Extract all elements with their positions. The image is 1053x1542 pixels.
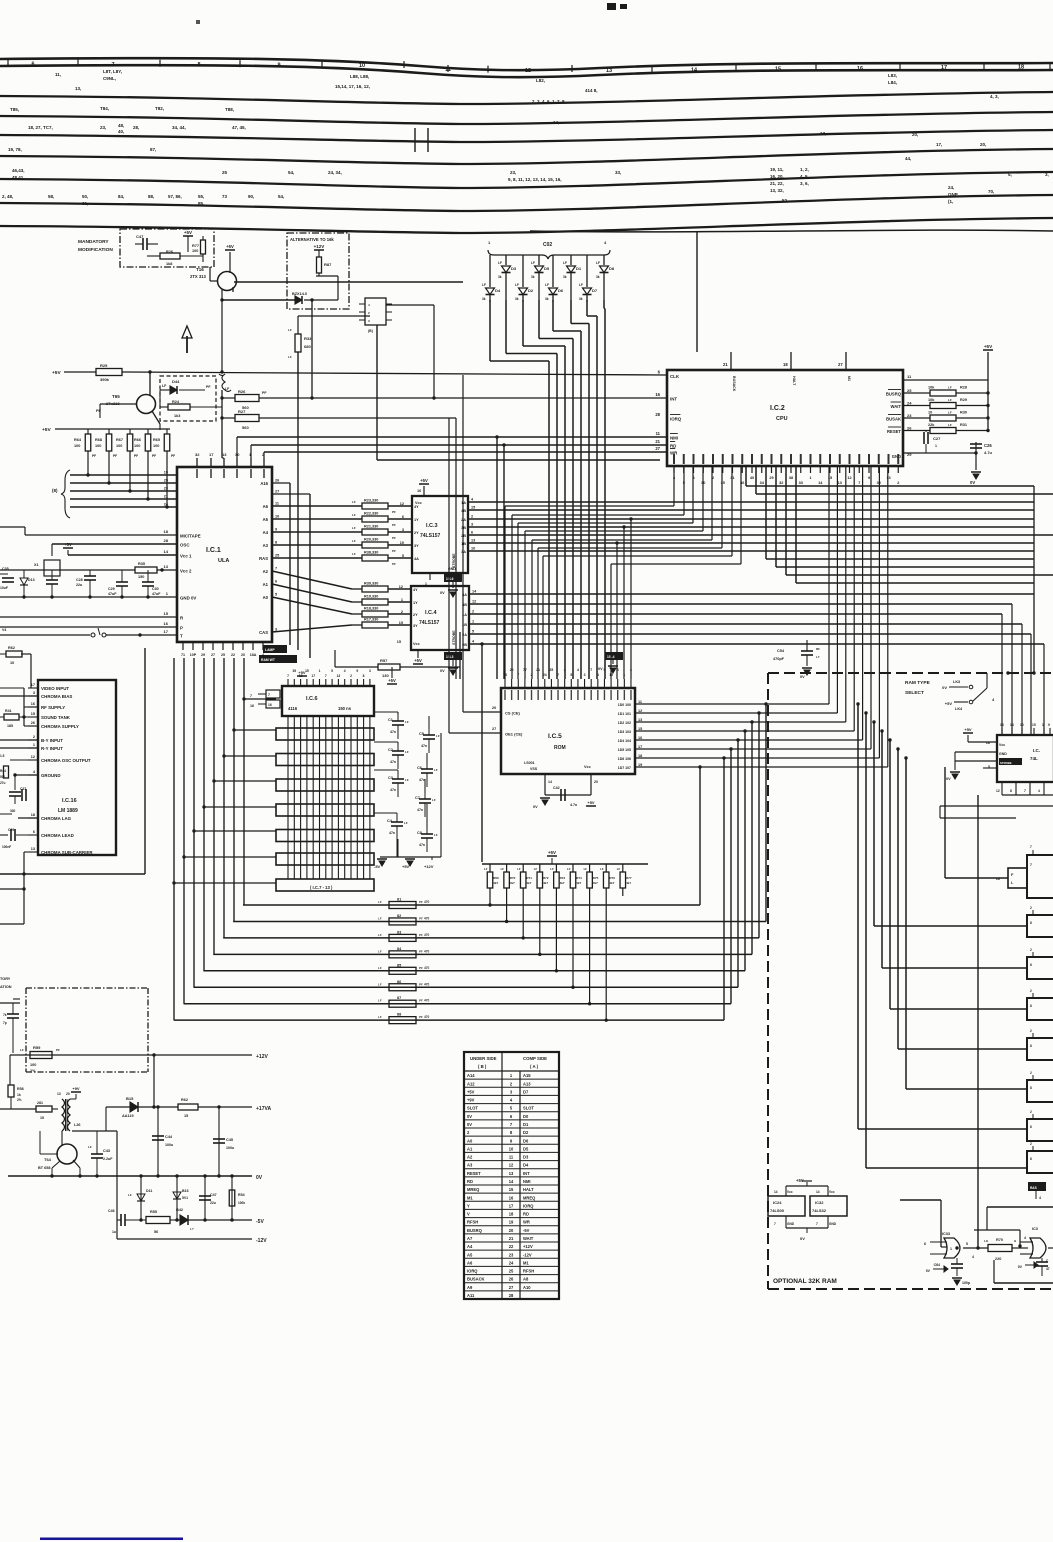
- svg-text:0V: 0V: [440, 669, 445, 673]
- svg-text:Vcc: Vcc: [829, 1190, 835, 1194]
- svg-text:3: 3: [471, 523, 473, 527]
- svg-text:16: 16: [509, 1195, 514, 1200]
- svg-text:5: 5: [966, 1242, 968, 1246]
- svg-text:R74: R74: [576, 876, 582, 880]
- svg-text:25: 25: [907, 388, 912, 393]
- svg-text:C47: C47: [210, 1193, 217, 1197]
- svg-text:R62: R62: [181, 1098, 188, 1102]
- svg-text:22u: 22u: [76, 583, 82, 587]
- svg-text:20,: 20,: [980, 142, 986, 147]
- svg-text:RAM TYPE: RAM TYPE: [905, 680, 931, 686]
- svg-text:8: 8: [1030, 1157, 1032, 1161]
- svg-text:7: 7: [1030, 863, 1032, 867]
- svg-text:13: 13: [886, 476, 890, 480]
- svg-text:13: 13: [164, 564, 169, 569]
- svg-text:16: 16: [250, 704, 254, 708]
- svg-text:5V1: 5V1: [182, 1196, 188, 1200]
- svg-text:7: 7: [858, 481, 860, 485]
- svg-text:14: 14: [164, 549, 169, 554]
- svg-text:R18,330: R18,330: [364, 607, 378, 611]
- svg-text:LF: LF: [498, 261, 502, 265]
- svg-text:A13: A13: [523, 1081, 531, 1086]
- svg-text:48,41,: 48,41,: [12, 175, 25, 180]
- svg-text:(8): (8): [52, 488, 58, 493]
- svg-text:D6: D6: [558, 288, 564, 293]
- svg-text:PF: PF: [419, 949, 423, 953]
- svg-text:I.C.: I.C.: [1033, 748, 1040, 753]
- svg-text:4A: 4A: [414, 557, 419, 561]
- svg-text:D7: D7: [523, 1089, 529, 1094]
- svg-text:GND: GND: [829, 1222, 837, 1226]
- svg-text:R35: R35: [138, 562, 145, 566]
- svg-text:1k3: 1k3: [174, 414, 180, 418]
- svg-text:A0: A0: [263, 595, 269, 600]
- svg-text:SLOT: SLOT: [523, 1106, 534, 1111]
- svg-text:LF: LF: [545, 283, 549, 287]
- svg-text:+5V: +5V: [964, 727, 972, 732]
- svg-text:7: 7: [1030, 845, 1032, 849]
- svg-text:38: 38: [789, 476, 793, 480]
- svg-text:INT: INT: [670, 397, 677, 402]
- svg-text:1D7 107: 1D7 107: [618, 766, 631, 770]
- svg-text:40: 40: [750, 476, 754, 480]
- svg-text:0V: 0V: [467, 1122, 472, 1127]
- svg-text:MREQ: MREQ: [467, 1187, 480, 1192]
- svg-text:17: 17: [311, 674, 315, 678]
- svg-text:ATION: ATION: [0, 985, 12, 989]
- svg-text:RAS: RAS: [259, 556, 268, 561]
- svg-text:R26: R26: [238, 389, 246, 394]
- svg-text:71: 71: [181, 653, 185, 657]
- svg-text:IC32: IC32: [815, 1200, 824, 1205]
- svg-text:C02: C02: [543, 242, 552, 248]
- svg-text:3Y: 3Y: [414, 544, 419, 548]
- svg-text:29: 29: [769, 476, 773, 480]
- svg-text:74LS32: 74LS32: [812, 1208, 827, 1213]
- svg-text:35: 35: [292, 669, 296, 673]
- svg-text:16: 16: [417, 489, 421, 493]
- svg-text:R54: R54: [238, 1193, 245, 1197]
- svg-text:3Y: 3Y: [413, 624, 418, 628]
- svg-text:0V: 0V: [970, 480, 975, 485]
- svg-text:1D0 100: 1D0 100: [618, 703, 631, 707]
- svg-text:12: 12: [472, 600, 476, 604]
- svg-text:R59: R59: [33, 1045, 41, 1050]
- svg-text:+5V: +5V: [587, 800, 595, 805]
- svg-text:4k7: 4k7: [543, 881, 548, 885]
- svg-text:1Y: 1Y: [414, 518, 419, 522]
- svg-text:46,43,: 46,43,: [12, 168, 25, 173]
- svg-text:16, 20,: 16, 20,: [770, 174, 784, 179]
- svg-text:HALT: HALT: [523, 1187, 534, 1192]
- svg-text:R19,330: R19,330: [364, 595, 378, 599]
- svg-text:25: 25: [221, 653, 225, 657]
- svg-text:PF: PF: [419, 933, 423, 937]
- svg-text:-5V: -5V: [523, 1228, 530, 1233]
- svg-text:CHROMA LEAD: CHROMA LEAD: [41, 833, 74, 838]
- svg-text:PF: PF: [419, 982, 423, 986]
- svg-text:8: 8: [1030, 921, 1032, 925]
- svg-text:1: 1: [1042, 723, 1044, 727]
- svg-text:LF: LF: [352, 552, 356, 556]
- svg-text:87,: 87,: [150, 147, 156, 152]
- svg-text:16: 16: [164, 621, 169, 626]
- svg-text:+5V: +5V: [467, 1089, 475, 1094]
- svg-text:3: 3: [33, 691, 35, 695]
- svg-text:R21,330: R21,330: [364, 525, 378, 529]
- svg-text:3k: 3k: [579, 297, 583, 301]
- svg-text:D7: D7: [592, 288, 598, 293]
- svg-text:4: 4: [972, 1255, 974, 1259]
- svg-text:47, 45,: 47, 45,: [232, 125, 246, 130]
- svg-text:4.7u: 4.7u: [984, 450, 993, 455]
- svg-text:3k: 3k: [515, 297, 519, 301]
- svg-text:8: 8: [363, 674, 365, 678]
- svg-text:23: 23: [509, 1252, 514, 1257]
- svg-text:1D5 105: 1D5 105: [618, 748, 631, 752]
- svg-text:0V: 0V: [1018, 1265, 1023, 1269]
- svg-text:1k: 1k: [17, 1093, 21, 1097]
- svg-text:LF: LF: [563, 261, 567, 265]
- svg-text:7: 7: [111, 62, 114, 68]
- svg-text:PF: PF: [92, 454, 96, 458]
- svg-text:LG: LG: [984, 1239, 989, 1243]
- svg-text:10uF: 10uF: [0, 586, 8, 590]
- svg-text:R64: R64: [74, 438, 82, 442]
- svg-text:R66: R66: [134, 438, 141, 442]
- svg-text:AA119: AA119: [122, 1114, 134, 1118]
- svg-text:LF: LF: [404, 821, 408, 825]
- svg-text:13: 13: [222, 452, 227, 457]
- svg-text:-5V: -5V: [374, 864, 381, 869]
- svg-text:C64: C64: [934, 1263, 940, 1267]
- svg-text:10k: 10k: [928, 398, 935, 402]
- svg-text:1u: 1u: [112, 1230, 116, 1234]
- svg-text:9: 9: [356, 669, 358, 673]
- svg-text:LF: LF: [534, 867, 538, 871]
- svg-text:C7: C7: [415, 796, 420, 800]
- svg-text:5: 5: [570, 673, 572, 677]
- svg-text:PF: PF: [419, 1015, 423, 1019]
- svg-text:470: 470: [424, 900, 430, 904]
- svg-text:A7: A7: [467, 1236, 473, 1241]
- svg-text:20: 20: [241, 653, 245, 657]
- svg-text:19: 19: [509, 1220, 514, 1225]
- svg-text:LF: LF: [352, 539, 356, 543]
- svg-text:3,: 3,: [1045, 172, 1049, 177]
- svg-text:9: 9: [275, 528, 277, 532]
- svg-text:27: 27: [838, 362, 843, 367]
- svg-text:C2: C2: [388, 748, 393, 752]
- svg-text:R65: R65: [153, 438, 160, 442]
- svg-text:33: 33: [799, 481, 803, 485]
- svg-text:D44: D44: [172, 379, 180, 384]
- svg-text:81: 81: [397, 898, 401, 902]
- svg-text:CAS: CAS: [259, 630, 268, 635]
- svg-text:470: 470: [424, 916, 430, 920]
- svg-text:2, 3, 4, 6, 1, 7, 8,: 2, 3, 4, 6, 1, 7, 8,: [532, 99, 566, 104]
- svg-text:20: 20: [594, 780, 598, 784]
- svg-text:17,: 17,: [936, 142, 942, 147]
- svg-text:24: 24: [509, 1260, 514, 1265]
- svg-text:+5V: +5V: [402, 864, 410, 869]
- svg-text:15L6: 15L6: [446, 577, 454, 581]
- svg-text:C44: C44: [165, 1135, 173, 1139]
- svg-text:R41: R41: [5, 709, 12, 713]
- svg-text:LF: LF: [432, 798, 436, 802]
- svg-text:7: 7: [816, 1222, 818, 1226]
- svg-text:RESET: RESET: [467, 1171, 481, 1176]
- svg-text:18: 18: [164, 529, 169, 534]
- svg-text:C28: C28: [76, 578, 83, 582]
- svg-text:47n: 47n: [419, 843, 425, 847]
- svg-text:5: 5: [331, 669, 333, 673]
- svg-text:LF: LF: [405, 720, 409, 724]
- svg-text:4k7: 4k7: [526, 881, 531, 885]
- svg-text:COMP SIDE: COMP SIDE: [523, 1056, 547, 1061]
- svg-text:LF: LF: [617, 867, 621, 871]
- svg-text:LF: LF: [600, 867, 604, 871]
- svg-text:IORQ: IORQ: [670, 417, 682, 422]
- svg-text:2Y: 2Y: [414, 531, 419, 535]
- svg-text:LF: LF: [436, 734, 440, 738]
- svg-text:R27: R27: [238, 409, 246, 414]
- svg-text:NMI: NMI: [670, 436, 678, 441]
- svg-text:D1: D1: [576, 266, 582, 271]
- svg-text:7k: 7k: [3, 1013, 7, 1017]
- svg-text:LF: LF: [531, 261, 535, 265]
- svg-text:1k8: 1k8: [166, 262, 172, 266]
- svg-text:12: 12: [847, 476, 851, 480]
- svg-text:19: 19: [164, 471, 168, 475]
- svg-text:BUSRQ: BUSRQ: [886, 392, 902, 397]
- svg-text:390k: 390k: [100, 377, 110, 382]
- svg-text:3: 3: [584, 673, 586, 677]
- svg-text:74LS00: 74LS00: [770, 1208, 785, 1213]
- svg-text:RESET: RESET: [887, 429, 901, 434]
- svg-text:HALT: HALT: [792, 376, 796, 386]
- svg-text:5: 5: [275, 593, 277, 597]
- svg-text:C45: C45: [226, 1138, 233, 1142]
- svg-text:T84,: T84,: [100, 106, 109, 111]
- svg-text:85: 85: [397, 963, 401, 967]
- svg-text:4: 4: [1024, 1236, 1026, 1240]
- svg-text:4Y: 4Y: [413, 588, 418, 592]
- svg-text:D0: D0: [523, 1114, 529, 1119]
- svg-text:7: 7: [590, 668, 592, 672]
- svg-text:4: 4: [1038, 789, 1040, 793]
- svg-text:L26: L26: [74, 1123, 81, 1127]
- svg-text:RD: RD: [523, 1212, 529, 1217]
- svg-text:3k: 3k: [563, 275, 567, 279]
- svg-text:5: 5: [472, 630, 474, 634]
- svg-text:C37: C37: [20, 787, 26, 791]
- svg-text:LF: LF: [128, 1193, 132, 1197]
- svg-text:R58: R58: [17, 1087, 24, 1091]
- svg-text:I.C.4: I.C.4: [425, 610, 438, 616]
- svg-text:15L3: 15L3: [446, 655, 454, 659]
- svg-text:CS (CE): CS (CE): [505, 711, 521, 716]
- svg-text:26: 26: [509, 1277, 514, 1282]
- svg-text:47: 47: [1046, 1267, 1050, 1271]
- svg-text:470: 470: [424, 982, 430, 986]
- svg-text:100: 100: [30, 1063, 36, 1067]
- svg-text:100: 100: [74, 444, 80, 448]
- svg-text:16: 16: [268, 703, 272, 707]
- svg-text:17: 17: [509, 1203, 514, 1208]
- svg-text:+5V: +5V: [388, 678, 396, 683]
- svg-text:LF: LF: [288, 328, 292, 332]
- svg-text:IORQ: IORQ: [523, 1203, 534, 1208]
- svg-text:12: 12: [996, 789, 1000, 793]
- svg-text:27: 27: [492, 727, 496, 731]
- svg-text:L82,: L82,: [536, 78, 545, 83]
- svg-text:MODIFICATION: MODIFICATION: [78, 247, 113, 253]
- svg-text:R70: R70: [996, 1238, 1003, 1242]
- svg-text:150: 150: [138, 575, 144, 579]
- svg-text:VIDEO INPUT: VIDEO INPUT: [41, 686, 69, 691]
- svg-text:15: 15: [305, 669, 309, 673]
- svg-text:+9V: +9V: [467, 1098, 475, 1103]
- svg-text:13: 13: [57, 1092, 61, 1096]
- svg-text:LF: LF: [948, 411, 952, 415]
- svg-text:14: 14: [774, 1190, 778, 1194]
- svg-text:+12V: +12V: [314, 244, 325, 249]
- svg-text:3k: 3k: [596, 275, 600, 279]
- svg-text:7: 7: [774, 1222, 776, 1226]
- svg-text:C39: C39: [8, 828, 14, 832]
- svg-text:10: 10: [928, 411, 932, 415]
- svg-text:4k7: 4k7: [593, 881, 598, 885]
- svg-text:A6: A6: [263, 504, 269, 509]
- svg-text:PF: PF: [419, 999, 423, 1003]
- svg-text:3k: 3k: [498, 275, 502, 279]
- svg-text:21: 21: [509, 1236, 514, 1241]
- svg-text:50,: 50,: [82, 194, 88, 199]
- svg-text:88,: 88,: [148, 194, 154, 199]
- svg-text:GND: GND: [892, 454, 901, 459]
- svg-text:L?: L?: [190, 1227, 194, 1231]
- svg-text:R31: R31: [960, 423, 967, 427]
- svg-text:V: V: [467, 1212, 470, 1217]
- svg-text:100k: 100k: [238, 1201, 245, 1205]
- svg-text:RFSH: RFSH: [467, 1220, 478, 1225]
- svg-text:C3: C3: [388, 776, 393, 780]
- svg-text:LF: LF: [405, 750, 409, 754]
- svg-text:-12V: -12V: [256, 1238, 267, 1244]
- svg-text:D5: D5: [523, 1146, 529, 1151]
- svg-text:CLK: CLK: [670, 374, 680, 379]
- svg-text:14,: 14,: [553, 120, 559, 125]
- svg-text:A5: A5: [263, 517, 269, 522]
- svg-text:CHROMA OSC OUTPUT: CHROMA OSC OUTPUT: [41, 758, 91, 763]
- svg-text:4k7: 4k7: [510, 881, 515, 885]
- svg-text:47n: 47n: [390, 730, 396, 734]
- svg-text:LF: LF: [288, 355, 292, 359]
- svg-text:PF: PF: [113, 454, 117, 458]
- svg-text:23: 23: [907, 413, 912, 418]
- svg-text:20: 20: [492, 706, 496, 710]
- svg-text:3k: 3k: [545, 297, 549, 301]
- svg-text:27u: 27u: [0, 781, 6, 785]
- svg-text:A3: A3: [263, 543, 269, 548]
- svg-text:8: 8: [1030, 1044, 1032, 1048]
- svg-text:26: 26: [31, 721, 35, 725]
- svg-text:470: 470: [424, 966, 430, 970]
- svg-text:MREQ: MREQ: [523, 1195, 536, 1200]
- svg-text:T88,: T88,: [225, 107, 234, 112]
- svg-text:BT 658: BT 658: [38, 1166, 50, 1170]
- svg-text:8: 8: [1030, 1004, 1032, 1008]
- svg-text:23,: 23,: [100, 125, 106, 130]
- svg-text:GND: GND: [999, 752, 1007, 756]
- svg-text:16: 16: [857, 66, 863, 72]
- svg-text:33,: 33,: [615, 170, 621, 175]
- svg-text:2A: 2A: [461, 518, 466, 522]
- svg-text:0V: 0V: [440, 591, 445, 595]
- svg-text:9: 9: [604, 668, 606, 672]
- svg-text:35: 35: [721, 481, 725, 485]
- svg-text:7: 7: [287, 674, 289, 678]
- svg-text:L8T, L8Y,: L8T, L8Y,: [103, 69, 122, 74]
- svg-text:C1: C1: [388, 718, 393, 722]
- svg-text:16: 16: [31, 702, 35, 706]
- svg-text:LF: LF: [948, 386, 952, 390]
- svg-text:21: 21: [164, 495, 168, 499]
- svg-text:14: 14: [691, 67, 698, 73]
- svg-text:100u: 100u: [165, 1143, 173, 1147]
- svg-text:R20,330: R20,330: [364, 538, 378, 542]
- svg-text:3B: 3B: [461, 526, 466, 530]
- svg-text:R69: R69: [493, 876, 499, 880]
- svg-text:PF: PF: [392, 523, 396, 527]
- svg-text:15: 15: [397, 640, 401, 644]
- svg-text:8: 8: [1030, 963, 1032, 967]
- svg-text:27: 27: [655, 446, 660, 451]
- svg-text:1: 1: [935, 444, 937, 448]
- svg-text:8: 8: [1030, 1086, 1032, 1090]
- svg-text:9: 9: [277, 63, 280, 69]
- svg-text:A11: A11: [467, 1293, 475, 1298]
- svg-text:15: 15: [184, 1114, 188, 1118]
- svg-text:D3: D3: [511, 266, 517, 271]
- svg-text:6: 6: [33, 830, 35, 834]
- svg-text:84,: 84,: [118, 194, 124, 199]
- svg-text:UNDER SIDE: UNDER SIDE: [470, 1056, 497, 1061]
- svg-text:R22,330: R22,330: [364, 512, 378, 516]
- svg-text:185: 185: [7, 724, 13, 728]
- svg-text:LF: LF: [517, 867, 521, 871]
- svg-text:+5V: +5V: [414, 658, 422, 663]
- svg-text:R77: R77: [626, 876, 632, 880]
- svg-text:6: 6: [31, 61, 34, 67]
- svg-text:8: 8: [1010, 789, 1012, 793]
- svg-text:R26: R26: [166, 250, 173, 254]
- svg-text:OE1 (CE): OE1 (CE): [505, 732, 523, 737]
- svg-text:L83,: L83,: [888, 73, 897, 78]
- svg-text:WAIT: WAIT: [891, 404, 902, 409]
- svg-text:470: 470: [424, 949, 430, 953]
- svg-text:4, 5,: 4, 5,: [800, 174, 809, 179]
- svg-text:+5V: +5V: [52, 370, 61, 376]
- svg-text:32: 32: [779, 481, 783, 485]
- svg-text:12: 12: [525, 68, 531, 74]
- svg-text:30: 30: [235, 452, 240, 457]
- svg-text:D1: D1: [523, 1122, 529, 1127]
- svg-text:B15: B15: [126, 1096, 134, 1101]
- svg-text:100: 100: [116, 444, 122, 448]
- svg-text:100p: 100p: [962, 1281, 970, 1285]
